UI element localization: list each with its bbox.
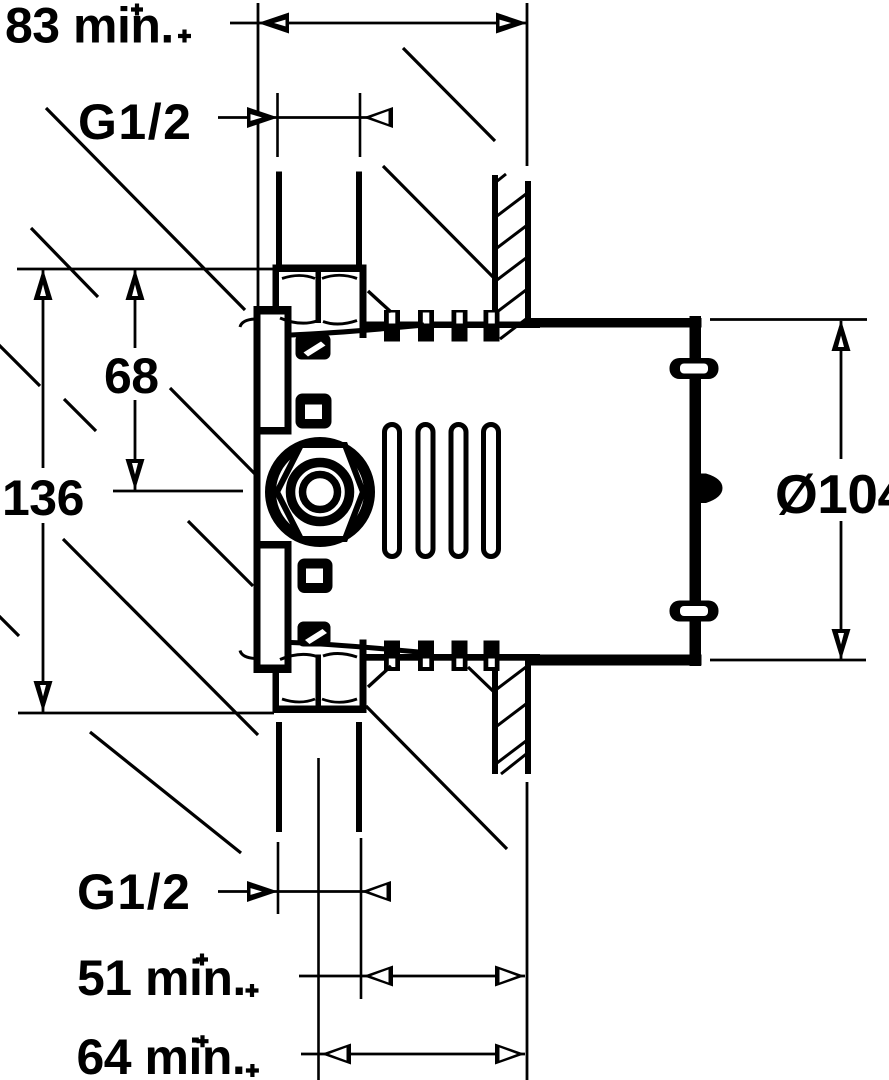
dimension line D104 vertical [840, 321, 843, 459]
extension line y269 horizontal [17, 268, 274, 271]
supply pipe bottom left edge [276, 722, 282, 832]
supply pipe bottom right edge [356, 722, 362, 832]
thread ribs top row [384, 310, 500, 342]
wall section bottom: right face [525, 660, 531, 774]
svg-text:136: 136 [2, 470, 84, 526]
dimension line G1/2 bottom [218, 890, 387, 893]
hex union middle ring [291, 463, 350, 522]
dimension line 68 vertical [134, 269, 137, 348]
extension tick x278 bottom (G1/2) [277, 842, 280, 914]
svg-text:G1/2: G1/2 [77, 864, 191, 920]
hex union circle outer [271, 443, 370, 542]
mounting ear top [670, 358, 719, 379]
wall section top: right face [525, 181, 531, 322]
diagonal break line E long lower-left [63, 539, 258, 735]
tolerance plus top (64) [197, 1035, 209, 1047]
union nut top [240, 265, 424, 339]
extension tick x277.5 top (G1/2) [276, 93, 279, 157]
tolerance plus bottom (51) [246, 984, 259, 997]
pipe centre line x318.5 bottom [317, 758, 320, 1080]
dimension line 64 min [301, 1053, 525, 1056]
dimension line G1/2 top [218, 116, 391, 119]
diagonal leader V-bottom into wall [468, 667, 494, 692]
tolerance plus top (51) [196, 954, 208, 966]
screw tab 2 (socket) [296, 394, 332, 429]
extension line y660 right (D104 bottom) [710, 659, 866, 662]
hex nut flats [277, 445, 363, 539]
diagonal break line I bottom-left [90, 732, 241, 853]
wall section top: left face [492, 175, 498, 327]
dimension line 136 vertical [42, 269, 45, 468]
svg-text:83 min.: 83 min. [5, 0, 174, 54]
extension tick x360 top (G1/2) [359, 93, 362, 157]
extension line x527 top (wall face) [526, 3, 529, 166]
diagonal break line C left [31, 228, 98, 297]
diagonal break line D left edge [0, 342, 40, 386]
wall section bottom: left face [492, 660, 498, 774]
supply pipe top right edge [356, 172, 362, 265]
tolerance plus bottom (83) [178, 30, 191, 43]
diagonal leader V-top into wall [383, 166, 493, 277]
extension line y319.5 right (D104 top) [710, 318, 867, 321]
vent slots [385, 425, 499, 557]
wall bottom hatch lines [493, 664, 530, 774]
svg-text:64 min.: 64 min. [77, 1029, 246, 1080]
valve body top edge [366, 322, 540, 329]
union nut bottom [240, 640, 424, 714]
wall top hatch lines [493, 174, 530, 339]
screw tab 1 (slash) [296, 334, 331, 360]
mounting flange plate [254, 306, 292, 673]
valve body bottom edge [366, 654, 540, 661]
diagonal break line G to flange lower [188, 521, 253, 586]
svg-text:51 min.: 51 min. [77, 950, 246, 1006]
valve body right edge [690, 316, 702, 666]
diagonal break line F to flange [170, 388, 256, 475]
diagonal break line A top [403, 48, 495, 141]
extension line x361 bottom (51 min) [360, 838, 363, 999]
svg-text:68: 68 [104, 348, 159, 404]
hex union inner circle [303, 475, 338, 510]
dimension line 83 min [230, 22, 527, 25]
screw tab 3 (socket) [298, 559, 333, 594]
mounting ear bottom [670, 601, 719, 622]
extension line y491 centre horizontal [113, 490, 243, 493]
tolerance plus bottom (64) [246, 1064, 259, 1077]
diagonal break line J bottom-middle [366, 706, 507, 849]
retaining clip right edge [699, 474, 723, 504]
diagonal break line H bottom-left edge [0, 614, 19, 636]
tolerance plus top (83) [131, 4, 143, 16]
extension line y713 horizontal [18, 712, 274, 715]
svg-text:G1/2: G1/2 [78, 94, 192, 150]
svg-text:Ø104: Ø104 [775, 463, 889, 525]
thread ribs bottom row [384, 641, 500, 672]
supply pipe top left edge [276, 172, 282, 265]
extension line x527 bottom (wall face) [526, 782, 529, 1080]
diagonal break line B upper-left long [46, 108, 245, 310]
dimension line 51 min [299, 975, 525, 978]
extension line x258 (flange face) [257, 3, 260, 306]
diagonal break line D2 short [64, 399, 96, 431]
screw tab 4 (slash) [298, 622, 331, 647]
